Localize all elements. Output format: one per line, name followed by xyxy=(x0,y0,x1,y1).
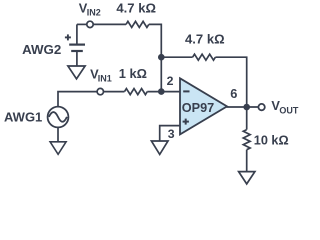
resistor 1k xyxy=(125,89,148,95)
wire R1 to op-amp pin2 xyxy=(147,91,180,93)
wire AWG1 down to ground xyxy=(57,127,59,142)
resistor 10k load xyxy=(243,130,250,150)
junction dot output xyxy=(243,104,250,111)
wire VIN2 to R top xyxy=(93,23,126,25)
junction dot summing node upper xyxy=(158,54,165,61)
resistor 4.7k feedback xyxy=(193,54,216,60)
wire output down to R load xyxy=(246,107,248,130)
node VOUT terminal circle xyxy=(258,104,264,110)
sine source AWG1 xyxy=(48,107,69,128)
battery plus sign xyxy=(65,34,71,40)
ground (AWG2) xyxy=(68,66,85,79)
svg-text:6: 6 xyxy=(230,86,237,101)
ground (AWG1) xyxy=(50,142,66,155)
ground (output) xyxy=(239,172,255,184)
node VIN2 terminal circle xyxy=(87,21,93,27)
resistor 4.7k top xyxy=(126,21,149,27)
wire R top to corner and down to node xyxy=(149,24,162,57)
svg-text:4.7 kΩ: 4.7 kΩ xyxy=(116,1,156,16)
op-amp plus sign xyxy=(183,119,189,125)
op-amp minus sign xyxy=(183,90,189,92)
svg-text:2: 2 xyxy=(167,74,174,88)
wire feedback to output corner xyxy=(215,57,246,107)
svg-text:AWG2: AWG2 xyxy=(22,42,61,57)
node VIN1 terminal circle xyxy=(97,88,103,94)
wire op-amp pin3 to ground xyxy=(160,126,180,141)
battery source AWG2 xyxy=(69,24,85,66)
svg-text:OP97: OP97 xyxy=(182,101,214,115)
svg-text:3: 3 xyxy=(168,127,175,141)
wire summing node vertical xyxy=(160,57,162,91)
op-amp U1 triangle xyxy=(180,78,227,134)
wire op-amp output xyxy=(227,106,259,108)
wire VIN1 to R1 xyxy=(103,91,125,93)
svg-text:1 kΩ: 1 kΩ xyxy=(119,66,147,81)
wire top-left horizontal xyxy=(77,23,87,25)
wire R load to ground xyxy=(246,150,248,172)
svg-text:10 kΩ: 10 kΩ xyxy=(254,133,289,147)
ground (pin3) xyxy=(151,141,168,154)
svg-text:4.7 kΩ: 4.7 kΩ xyxy=(185,32,225,47)
sine wave glyph xyxy=(49,112,67,122)
wire AWG1 up to VIN1 line xyxy=(58,92,97,107)
svg-text:AWG1: AWG1 xyxy=(4,110,42,125)
wire node to feedback resistor xyxy=(161,56,192,58)
junction dot summing node lower xyxy=(158,88,165,95)
